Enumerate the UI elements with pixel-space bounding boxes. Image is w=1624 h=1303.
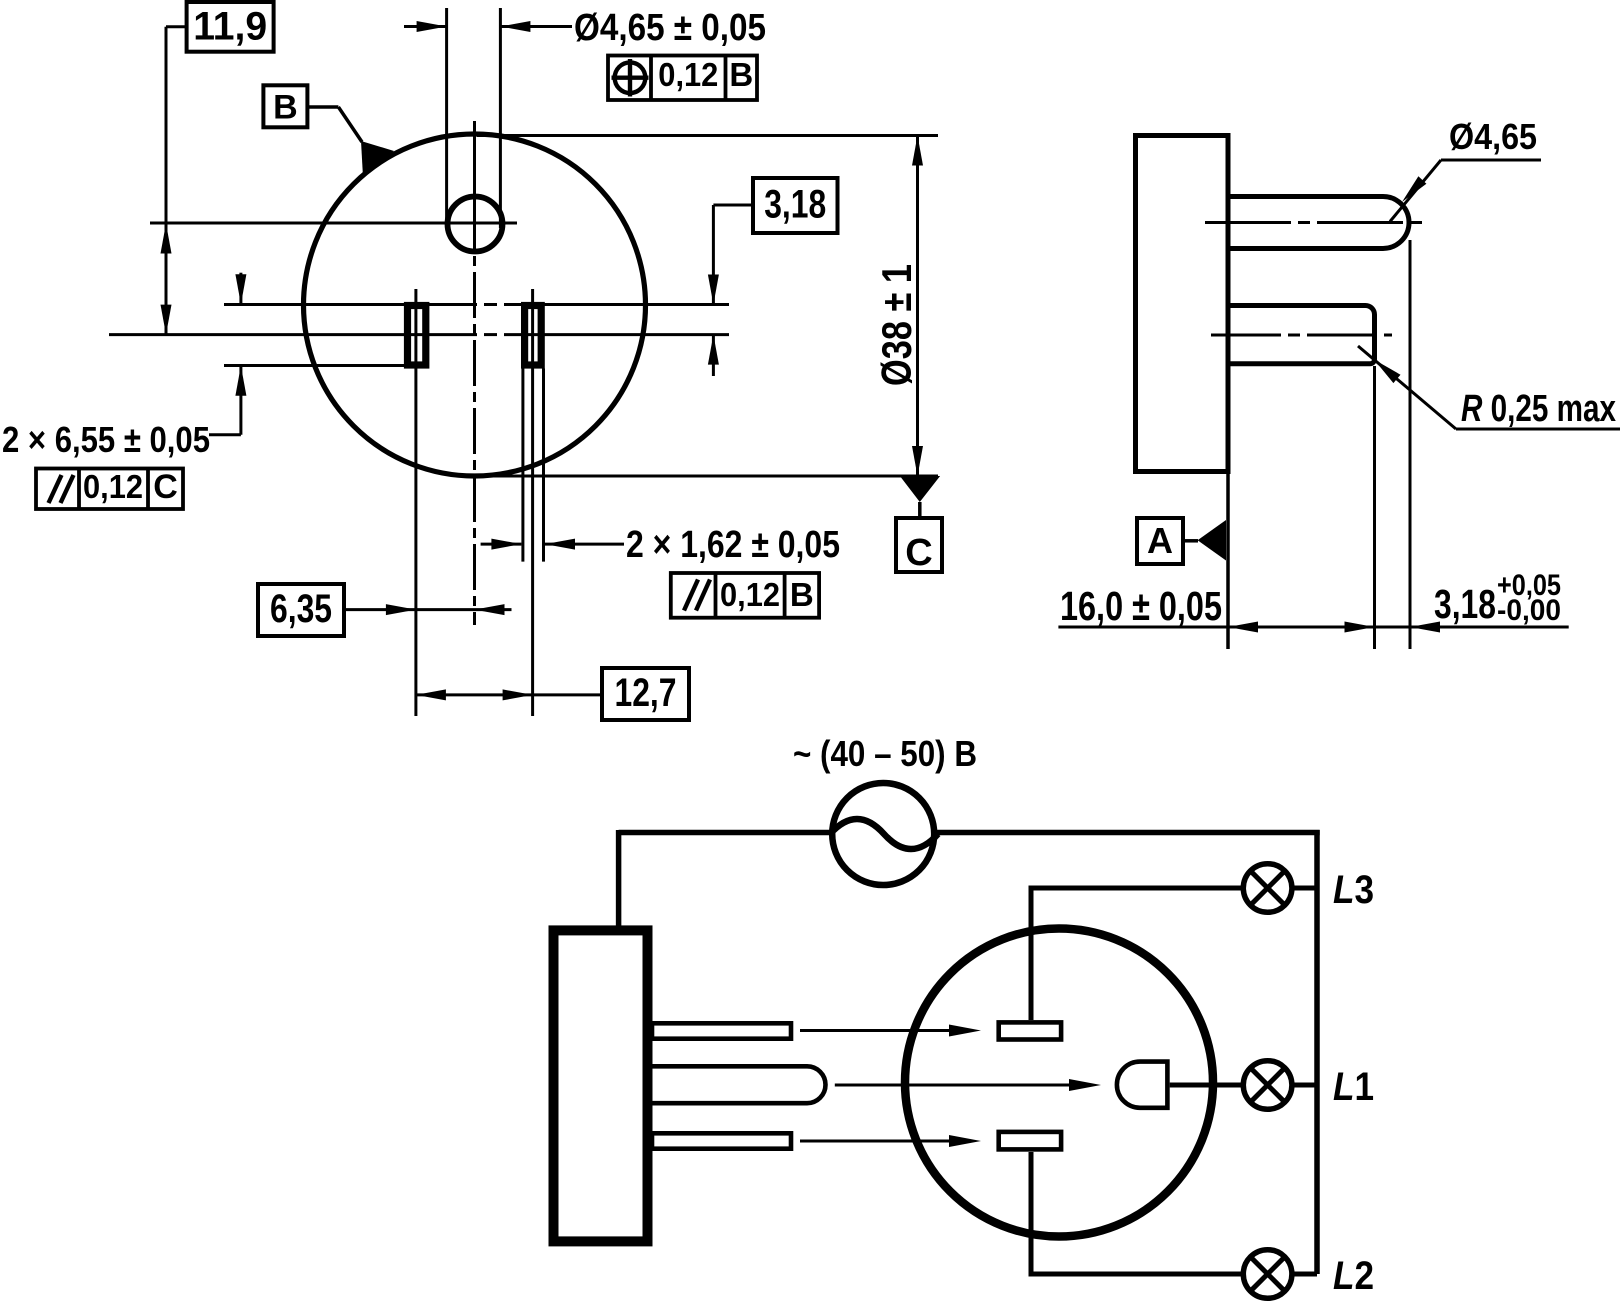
- svg-text:~ (40 – 50) B: ~ (40 – 50) B: [793, 733, 977, 774]
- svg-text:L1: L1: [1333, 1065, 1374, 1109]
- svg-text:Ø4,65 ± 0,05: Ø4,65 ± 0,05: [574, 7, 766, 49]
- svg-text:B: B: [729, 56, 753, 93]
- svg-text:B: B: [273, 89, 298, 127]
- svg-text:3,18: 3,18: [764, 183, 826, 227]
- svg-text:0,12: 0,12: [658, 56, 718, 93]
- svg-text:2 × 6,55 ± 0,05: 2 × 6,55 ± 0,05: [2, 419, 210, 460]
- svg-text:Ø4,65: Ø4,65: [1449, 116, 1537, 157]
- svg-text:L2: L2: [1333, 1254, 1374, 1298]
- svg-text:3,18: 3,18: [1434, 581, 1496, 627]
- svg-text:C: C: [905, 532, 932, 574]
- svg-text:B: B: [790, 576, 814, 613]
- svg-text:11,9: 11,9: [193, 5, 267, 49]
- svg-text:Ø38 ± 1: Ø38 ± 1: [873, 264, 920, 386]
- svg-text:-0,00: -0,00: [1497, 594, 1561, 627]
- svg-text:2 × 1,62 ± 0,05: 2 × 1,62 ± 0,05: [626, 524, 840, 566]
- svg-text:A: A: [1147, 520, 1173, 561]
- svg-text:6,35: 6,35: [270, 587, 332, 631]
- svg-text:16,0 ± 0,05: 16,0 ± 0,05: [1060, 583, 1222, 629]
- svg-text:12,7: 12,7: [615, 671, 677, 715]
- svg-text:L3: L3: [1333, 868, 1374, 912]
- svg-text:0,12: 0,12: [720, 576, 780, 613]
- svg-text:C: C: [153, 468, 178, 506]
- svg-text:0,12: 0,12: [83, 468, 143, 505]
- svg-text:R 0,25 max: R 0,25 max: [1461, 388, 1616, 430]
